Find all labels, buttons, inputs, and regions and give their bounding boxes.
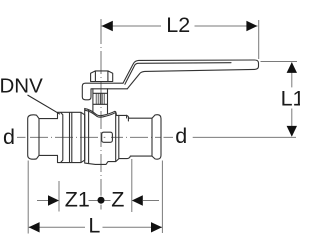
left press bead [28, 115, 39, 159]
handle mount plate [82, 83, 127, 100]
svg-text:DNV: DNV [0, 74, 43, 97]
Z1 outside arrow [48, 195, 59, 205]
handle lever bar [123, 60, 259, 89]
wire L2 right extension line [258, 20, 260, 59]
packing cap nut [91, 71, 113, 82]
union nut [58, 112, 85, 162]
right socket [127, 115, 152, 156]
wire DNV leader [28, 95, 61, 114]
center dot node [98, 197, 105, 204]
stem column [93, 89, 108, 114]
L1 up arrow [287, 62, 297, 73]
L2 left arrow [102, 21, 113, 31]
L2 right arrow [246, 21, 257, 31]
wire Z1 left extension line [58, 181, 60, 212]
valve body [85, 108, 132, 164]
dimension graphics [28, 20, 297, 234]
L left arrow [29, 222, 40, 232]
svg-text:L1: L1 [281, 87, 300, 111]
wire L left extension line [27, 161, 29, 234]
svg-text:L2: L2 [166, 13, 190, 37]
wire horizontal centerline [17, 136, 296, 138]
wire vertical stem centerline [100, 19, 102, 210]
wire Z1/Z dimension line [37, 200, 159, 202]
wire L right extension line [161, 161, 163, 234]
ball port square [102, 132, 113, 142]
svg-text:d: d [175, 124, 187, 148]
wire L dimension line [29, 226, 162, 228]
svg-text:L: L [88, 214, 100, 238]
right press bead [152, 115, 161, 160]
svg-text:Z1: Z1 [65, 187, 90, 211]
wire L1 top extension line [261, 61, 298, 63]
stem knurl hatch [96, 94, 104, 105]
Z outside arrow [132, 195, 143, 205]
wire L1 dimension line [291, 63, 293, 136]
wire Z right extension line [131, 159, 133, 212]
svg-text:Z: Z [111, 187, 124, 211]
left socket [39, 119, 58, 156]
L1 down arrow [287, 126, 297, 137]
wire L2 dimension line [101, 25, 258, 27]
L right arrow [151, 222, 162, 232]
svg-text:d: d [3, 125, 15, 149]
